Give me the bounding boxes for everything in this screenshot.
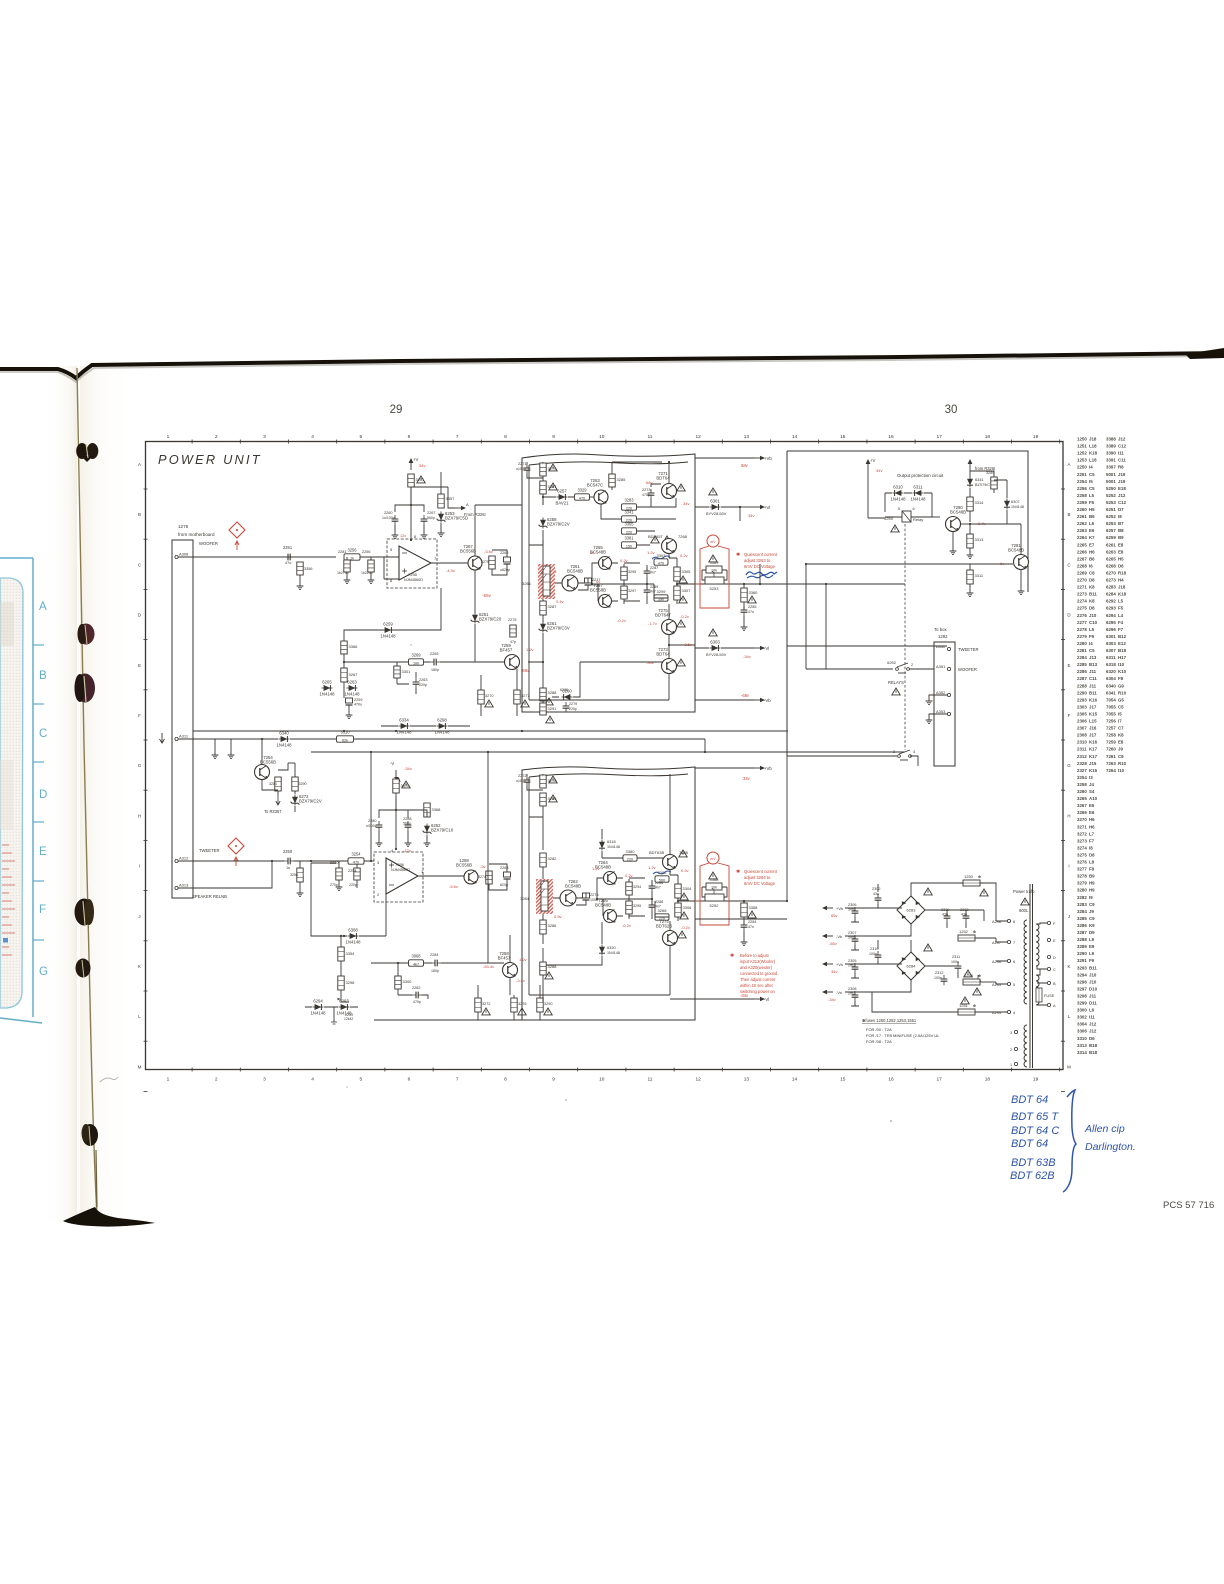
svg-text:J18: J18 [1089, 437, 1097, 442]
svg-text:C11: C11 [1118, 458, 1126, 463]
warning symbol w3370 [402, 781, 410, 788]
svg-text:6: 6 [1013, 960, 1015, 964]
svg-text:3286: 3286 [1077, 923, 1087, 928]
svg-text:BDT 62B: BDT 62B [1010, 1170, 1055, 1182]
svg-text:6259: 6259 [1106, 535, 1116, 540]
svg-text:J9: J9 [1118, 747, 1123, 752]
capacitor 2288 [405, 821, 412, 831]
svg-text:100n: 100n [869, 952, 877, 956]
svg-text:180p: 180p [431, 969, 439, 973]
svg-text:POWER UNIT: POWER UNIT [158, 452, 262, 467]
svg-text:470u: 470u [354, 703, 362, 707]
svg-text:FUSE: FUSE [1044, 993, 1055, 998]
svg-text:L9: L9 [1089, 937, 1095, 942]
warning symbol w-relays [892, 688, 900, 695]
svg-text:BDT63B: BDT63B [649, 850, 664, 855]
transistor 7267 BC556B [460, 544, 482, 570]
svg-text:-0.2v: -0.2v [617, 618, 626, 623]
svg-text:D8: D8 [1089, 852, 1095, 857]
svg-text:3354: 3354 [346, 951, 356, 956]
connector mark tweeter in [228, 838, 244, 866]
svg-text:11: 11 [648, 434, 653, 440]
svg-text:u100u: u100u [516, 467, 526, 471]
svg-text:I10: I10 [1118, 662, 1125, 667]
power arrow +V top [409, 458, 414, 470]
svg-text:6251: 6251 [1106, 507, 1116, 512]
svg-text:I10: I10 [1118, 768, 1125, 773]
svg-text:B6: B6 [1089, 556, 1095, 561]
svg-text:TWEETER: TWEETER [958, 647, 978, 652]
svg-text:I11: I11 [1118, 451, 1124, 456]
svg-text:4n7: 4n7 [655, 886, 661, 890]
svg-text:3298: 3298 [346, 980, 356, 985]
bottom stage bottom rail [529, 777, 670, 995]
svg-text:6284: 6284 [907, 964, 917, 969]
svg-text:BYV28-50V: BYV28-50V [706, 511, 727, 516]
svg-text:560: 560 [659, 878, 665, 882]
diode 6252 [423, 823, 454, 835]
svg-text:2277: 2277 [1077, 620, 1087, 625]
svg-text:2272: 2272 [518, 774, 526, 778]
svg-text:5: 5 [359, 1077, 362, 1083]
svg-text:3274: 3274 [478, 875, 486, 879]
warning symbol w1250 [980, 889, 988, 896]
svg-text:9: 9 [552, 1077, 555, 1083]
svg-text:3283: 3283 [624, 498, 634, 503]
svg-text:BZX79/C20: BZX79/C20 [479, 617, 502, 622]
ground gA353 [926, 717, 933, 724]
svg-text:2290: 2290 [1077, 690, 1087, 695]
capacitor 2311 [955, 962, 962, 972]
svg-text:1N4148: 1N4148 [1011, 505, 1024, 509]
svg-text:12: 12 [696, 1077, 702, 1083]
svg-text:7055: 7055 [1106, 711, 1116, 716]
svg-text:D6: D6 [1118, 563, 1124, 568]
resistor 3297 [621, 586, 627, 599]
svg-text:C9: C9 [1089, 902, 1095, 907]
svg-text:A350: A350 [936, 644, 946, 649]
svg-text:F: F [39, 904, 46, 916]
svg-text:-1.7v: -1.7v [648, 621, 657, 626]
svg-text:6292: 6292 [887, 660, 897, 665]
blue signature top [746, 572, 777, 578]
resistor 3283v [540, 566, 546, 580]
svg-text:BDT 64 C: BDT 64 C [1011, 1125, 1059, 1137]
svg-text:3307: 3307 [682, 588, 692, 593]
diode 6320 [599, 945, 605, 956]
svg-text:switching power on: switching power on [740, 989, 776, 994]
svg-text:-3.6v: -3.6v [484, 549, 493, 554]
svg-text:BC556B: BC556B [460, 549, 476, 554]
svg-text:7261: 7261 [1106, 754, 1116, 759]
svg-text:470p: 470p [642, 493, 650, 497]
svg-text:2256: 2256 [1077, 486, 1087, 491]
resistor 3291 [540, 703, 546, 715]
svg-text:47n: 47n [748, 925, 754, 929]
warning symbol w3278 [549, 776, 557, 783]
svg-text:2287: 2287 [1077, 676, 1087, 681]
svg-text:3285: 3285 [1077, 916, 1087, 921]
svg-text:6265: 6265 [322, 680, 332, 685]
diode 6258 [539, 517, 570, 529]
svg-text:3275: 3275 [481, 560, 489, 564]
svg-text:E6: E6 [1089, 810, 1095, 815]
diode 6272 [291, 794, 322, 806]
svg-text:2266: 2266 [1077, 549, 1087, 554]
wire relay to 7280 [932, 516, 940, 518]
svg-text:adjust 3264 to: adjust 3264 to [744, 875, 771, 880]
svg-text:3299: 3299 [657, 589, 667, 594]
svg-text:I4: I4 [1089, 641, 1093, 646]
svg-text:6293: 6293 [1106, 606, 1116, 611]
resistor 3272 [475, 998, 481, 1012]
svg-text:220: 220 [626, 530, 632, 534]
resistor 3299 [654, 595, 668, 601]
svg-text:Before to adjust: Before to adjust [740, 953, 770, 958]
svg-text:2260: 2260 [1077, 507, 1087, 512]
svg-text:B18: B18 [1089, 1043, 1098, 1048]
warning symbol w3288 [545, 698, 553, 705]
svg-text:1N4148: 1N4148 [607, 845, 620, 849]
svg-text:470: 470 [658, 561, 664, 565]
ground g2285 [741, 624, 748, 631]
svg-text:180p: 180p [431, 668, 439, 672]
svg-text:M: M [138, 1064, 142, 1069]
svg-text:1N4148: 1N4148 [276, 743, 292, 748]
svg-text:2261: 2261 [1077, 514, 1087, 519]
svg-text:29: 29 [390, 404, 403, 416]
resistor 3068 [409, 960, 424, 966]
svg-text:3: 3 [893, 750, 895, 754]
svg-text:H17: H17 [1118, 655, 1127, 660]
svg-text:K15: K15 [1089, 711, 1098, 716]
svg-text:J18: J18 [1118, 585, 1126, 590]
svg-text:7055: 7055 [1106, 704, 1116, 709]
svg-text:L6: L6 [1089, 1008, 1095, 1013]
svg-text:3297: 3297 [1077, 986, 1087, 991]
svg-text:2: 2 [911, 663, 913, 667]
resistor 3279 [540, 463, 546, 476]
svg-text:2250: 2250 [1077, 465, 1087, 470]
capacitor 2250 [284, 858, 294, 865]
svg-text:✽fuses 1250,1252,1253,1551: ✽fuses 1250,1252,1253,1551 [862, 1018, 917, 1023]
svg-text:A294: A294 [992, 1010, 1002, 1015]
svg-text:0.5v: 0.5v [554, 914, 562, 919]
svg-text:H6: H6 [1089, 549, 1095, 554]
svg-text:3274: 3274 [1077, 845, 1087, 850]
svg-text:B6: B6 [1089, 514, 1095, 519]
svg-text:J: J [1068, 914, 1070, 919]
svg-text:3293: 3293 [1077, 965, 1087, 970]
svg-text:3286: 3286 [548, 923, 558, 928]
terminal t3 [1014, 1030, 1017, 1033]
relay 5250 [884, 507, 923, 522]
capacitor 2284b [431, 960, 441, 967]
wire opamp minus input [384, 557, 399, 579]
capacitor 2309 [944, 912, 951, 922]
resistor 3301 [394, 666, 400, 678]
resistor 3310 [337, 736, 354, 742]
terminal A308 [175, 555, 178, 558]
svg-text:K16: K16 [1089, 740, 1098, 745]
svg-text:3288: 3288 [548, 964, 558, 969]
svg-text:2310: 2310 [870, 947, 878, 951]
svg-text:from motherboard: from motherboard [178, 532, 215, 537]
svg-text:Darlington.: Darlington. [1085, 1141, 1136, 1153]
svg-text:2271: 2271 [1077, 585, 1087, 590]
stray pencil mark [100, 1077, 118, 1082]
svg-text:3287: 3287 [548, 604, 558, 609]
svg-text:H5: H5 [1118, 556, 1124, 561]
svg-text:D: D [1067, 613, 1070, 618]
ground g3311 [967, 590, 974, 597]
grid tick prev page [33, 644, 44, 646]
svg-text:J11: J11 [1089, 683, 1097, 688]
svg-text:3357: 3357 [446, 496, 456, 501]
grid tick prev page [33, 880, 44, 882]
woofer route [826, 584, 893, 669]
svg-text:2275: 2275 [1077, 606, 1087, 611]
svg-text:1253: 1253 [964, 973, 974, 978]
svg-text:3268: 3268 [658, 908, 668, 913]
svg-text:Power trafo: Power trafo [1013, 889, 1035, 894]
svg-text:-34v: -34v [828, 997, 836, 1002]
svg-text:J11: J11 [1089, 669, 1097, 674]
svg-text:mV: mV [710, 540, 716, 544]
warning symbol w3360t [748, 596, 756, 603]
svg-text:3280: 3280 [1077, 888, 1087, 893]
capacitor 2260 [392, 515, 399, 525]
svg-text:47u: 47u [285, 561, 291, 565]
svg-text:B11: B11 [1089, 592, 1097, 597]
svg-text:2305: 2305 [848, 959, 856, 963]
svg-text:I11: I11 [1089, 1015, 1095, 1020]
svg-text:3306: 3306 [1077, 1029, 1087, 1034]
svg-text:2280: 2280 [368, 819, 376, 823]
svg-text:18: 18 [985, 434, 991, 440]
svg-text:BC548B: BC548B [1008, 548, 1024, 553]
resistor 3256 [344, 554, 360, 560]
svg-text:H4: H4 [1118, 578, 1124, 583]
svg-text:H5: H5 [1089, 507, 1095, 512]
warning symbol w6301 [709, 488, 717, 495]
svg-text:I6: I6 [1089, 563, 1093, 568]
resistor 3313 [967, 534, 973, 548]
wire box bottom [580, 661, 662, 663]
resistor 3280 [540, 793, 546, 806]
terminal A294 [1007, 1010, 1010, 1013]
long vertical right x787 [786, 756, 788, 901]
svg-text:To box: To box [934, 627, 948, 632]
svg-text:A: A [1053, 1003, 1056, 1008]
svg-text:E12: E12 [1118, 641, 1126, 646]
svg-text:1N4148: 1N4148 [607, 951, 620, 955]
svg-text:19: 19 [1033, 434, 1039, 440]
svg-text:-53.4v: -53.4v [483, 964, 494, 969]
warning symbol w7288 [679, 850, 687, 857]
ground g2284 [741, 939, 748, 946]
transistor 7288 BDT63B [663, 855, 678, 870]
svg-text:5001: 5001 [1106, 479, 1116, 484]
svg-text:B9: B9 [1089, 874, 1095, 879]
svg-text:6334: 6334 [399, 718, 409, 723]
svg-text:3271: 3271 [1077, 824, 1087, 829]
svg-text:2293: 2293 [1077, 697, 1087, 702]
svg-text:2311: 2311 [1077, 747, 1087, 752]
bridge rectifier 6284 [897, 952, 925, 980]
svg-text:D: D [1053, 955, 1056, 960]
svg-text:2250: 2250 [283, 849, 293, 854]
svg-text:3267: 3267 [1077, 803, 1087, 808]
svg-text:2282: 2282 [412, 986, 420, 990]
svg-text:6318: 6318 [1106, 662, 1116, 667]
svg-text:5001: 5001 [1106, 472, 1116, 477]
svg-text:L5: L5 [1089, 627, 1095, 632]
svg-text:470: 470 [353, 861, 359, 865]
diode 6311 [910, 485, 926, 502]
svg-text:2285: 2285 [1077, 662, 1087, 667]
warning symbol w-adj-bot [709, 872, 717, 879]
resistor 3304 [675, 884, 681, 898]
svg-text:0.2v: 0.2v [681, 868, 689, 873]
spine shading left [42, 366, 77, 1222]
svg-text:3366: 3366 [349, 644, 359, 649]
svg-text:Quiescent current: Quiescent current [744, 552, 778, 557]
svg-text:3294: 3294 [1077, 972, 1087, 977]
svg-text:6: 6 [408, 1077, 411, 1083]
svg-text:G9: G9 [1118, 683, 1124, 688]
capacitor 2259 [346, 698, 353, 705]
svg-text:2271: 2271 [518, 462, 526, 466]
transistor 7267 BC558B [590, 583, 612, 608]
svg-text:I7: I7 [1118, 719, 1122, 724]
output node wire bottom [678, 900, 787, 902]
resistor 3314 [967, 497, 973, 511]
svg-text:C8: C8 [1089, 570, 1095, 575]
svg-text:10k: 10k [711, 569, 717, 573]
svg-text:470: 470 [301, 873, 307, 877]
svg-text:3254: 3254 [1077, 775, 1087, 780]
svg-text:3261: 3261 [522, 581, 532, 586]
wire A308 input [178, 556, 336, 558]
capacitor 2282 [412, 992, 422, 999]
svg-text:-12v: -12v [403, 848, 411, 853]
svg-text:3270: 3270 [1077, 817, 1087, 822]
connector box 1292 [934, 642, 955, 766]
svg-text:E8: E8 [1118, 740, 1124, 745]
resistor 3368 [424, 803, 430, 817]
svg-text:3310: 3310 [1077, 1036, 1087, 1041]
opamp2 output wire [418, 875, 464, 877]
svg-text:A295: A295 [992, 982, 1001, 987]
svg-text:3389: 3389 [1106, 444, 1116, 449]
svg-text:J9: J9 [1089, 909, 1094, 914]
svg-text:BYV28-50V: BYV28-50V [706, 652, 727, 657]
svg-text:3258: 3258 [1077, 782, 1087, 787]
svg-text:+Vl: +Vl [764, 505, 770, 510]
svg-text:2: 2 [215, 1077, 218, 1083]
transistor 7273 BDT64 [656, 647, 676, 674]
warning symbol w5250 [891, 525, 899, 532]
diode 6263 [344, 680, 360, 697]
svg-text:47n: 47n [748, 610, 754, 614]
transistor 7258 BF457 [498, 951, 518, 978]
ground bottom feedback [333, 1007, 335, 1022]
svg-text:3285: 3285 [617, 477, 627, 482]
svg-text:3275: 3275 [1077, 852, 1087, 857]
svg-text:2308: 2308 [848, 987, 856, 991]
svg-text:3290: 3290 [1077, 951, 1087, 956]
bottom-left fold shadow blob [63, 1207, 155, 1227]
svg-text:C12: C12 [1118, 444, 1127, 449]
bottom rail inner [374, 1019, 695, 1021]
svg-text:2307: 2307 [848, 931, 856, 935]
warning symbol w7275 [677, 620, 685, 627]
bottom stage inner top line [529, 774, 688, 777]
svg-text:L6: L6 [1089, 521, 1095, 526]
tweeter route [787, 645, 947, 647]
power arrow fromR326I-1 [455, 506, 466, 510]
svg-text:1N4148: 1N4148 [345, 940, 361, 945]
svg-text:C: C [39, 728, 47, 740]
warning symbol w7273 [677, 659, 685, 666]
svg-text:13: 13 [744, 1077, 750, 1083]
svg-text:F7: F7 [1089, 838, 1095, 843]
svg-text:6283: 6283 [907, 908, 917, 913]
svg-text:H9: H9 [1089, 888, 1095, 893]
svg-text:2310: 2310 [1077, 740, 1087, 745]
svg-text:3369: 3369 [710, 560, 720, 565]
svg-text:470: 470 [579, 496, 585, 500]
svg-text:A353: A353 [936, 709, 946, 714]
svg-text:K10: K10 [1118, 669, 1127, 674]
svg-text:15: 15 [840, 434, 846, 440]
warning symbol w6303 [709, 629, 717, 636]
svg-text:7255: 7255 [408, 572, 418, 577]
resistor 3271 [408, 474, 414, 487]
svg-text:B7: B7 [1118, 521, 1124, 526]
svg-text:BDT 63B: BDT 63B [1011, 1157, 1056, 1169]
resistor 3283 [622, 504, 637, 510]
svg-text:5253: 5253 [710, 586, 720, 591]
spine shading right [80, 366, 135, 1222]
resistor 3370 [393, 779, 399, 793]
resistor 3360t [741, 588, 747, 602]
svg-text:A312: A312 [179, 856, 189, 861]
svg-text:I8: I8 [1118, 514, 1122, 519]
capacitor 2280 [376, 821, 383, 831]
capacitor 2265 [430, 659, 440, 666]
svg-text:18: 18 [985, 1077, 991, 1083]
svg-text:A311: A311 [179, 734, 189, 739]
svg-text:2288: 2288 [655, 900, 663, 904]
svg-text:2312: 2312 [935, 971, 943, 975]
svg-text:-55v: -55v [482, 593, 492, 598]
svg-text:6341: 6341 [975, 477, 984, 482]
svg-text:2306: 2306 [848, 903, 856, 907]
connector mark woofer in [229, 522, 245, 550]
capacitor 2289 [644, 586, 651, 596]
svg-text:Quiescent current: Quiescent current [744, 869, 778, 874]
svg-text:A: A [466, 502, 469, 507]
svg-text:D: D [39, 789, 47, 801]
svg-text:BDT 65 T: BDT 65 T [1011, 1111, 1059, 1123]
svg-text:2274: 2274 [1077, 599, 1087, 604]
svg-text:3287: 3287 [1077, 930, 1087, 935]
svg-text:62k: 62k [342, 738, 348, 742]
fuse in trafo [1036, 988, 1055, 1002]
warning symbol w6283 [924, 888, 932, 895]
